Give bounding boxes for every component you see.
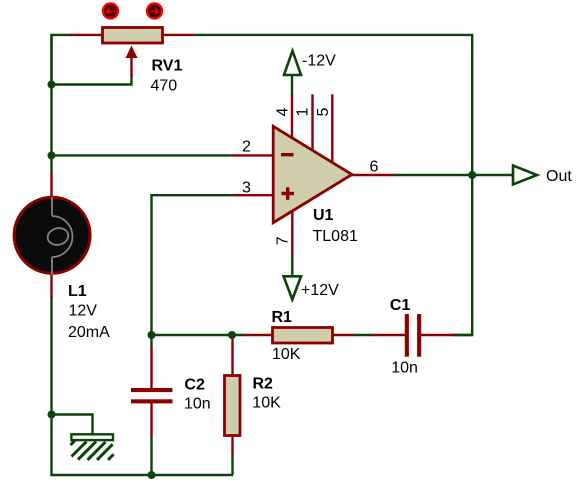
- wire R2 bottom green stub: [231, 455, 233, 475]
- wire out junction to out arrow: [454, 334, 472, 336]
- wire minus12 stem: [291, 75, 293, 96]
- wire mid horizontal between C2 and R2 nodes: [152, 334, 246, 336]
- svg-text:10K: 10K: [252, 395, 281, 412]
- potentiometer RV1 wiper arrow: [130, 55, 132, 76]
- svg-text:10K: 10K: [272, 346, 301, 363]
- potentiometer RV1 leads: [71, 34, 195, 36]
- resistor R1 body: [273, 328, 333, 344]
- junction node pin2/left rail: [48, 151, 56, 159]
- svg-text:-12V: -12V: [302, 53, 336, 70]
- op-amp U1 pin 4 lead: [291, 95, 293, 138]
- svg-text:12V: 12V: [69, 303, 98, 320]
- ground symbol: [71, 434, 114, 460]
- svg-text:7: 7: [275, 236, 292, 245]
- junction node C2 top: [148, 331, 156, 339]
- svg-text:4: 4: [275, 108, 292, 117]
- resistor R2 top lead: [231, 337, 233, 375]
- op-amp U1 pin 1 lead: [311, 94, 313, 150]
- junction node C2 bottom: [148, 471, 156, 479]
- resistor R2 body: [225, 376, 241, 436]
- wire plus12 stem: [291, 255, 293, 276]
- junction node output: [468, 171, 476, 179]
- svg-text:L1: L1: [68, 283, 87, 300]
- op-amp U1 pin 5 lead: [331, 94, 333, 163]
- capacitor C1 left lead: [372, 334, 405, 336]
- op-amp U1 triangle body: [273, 126, 352, 222]
- pot actuator button right (red dot with right arrow): [147, 3, 162, 18]
- svg-text:C1: C1: [390, 297, 411, 314]
- capacitor C1 right lead: [421, 334, 455, 336]
- svg-text:2: 2: [242, 139, 251, 156]
- capacitor C2 bottom lead: [150, 402, 152, 437]
- potentiometer RV1 body: [103, 28, 163, 44]
- svg-text:TL081: TL081: [313, 228, 358, 245]
- capacitor C2 top lead: [150, 348, 152, 388]
- svg-text:10n: 10n: [184, 396, 211, 413]
- wire right vertical below out junction: [454, 175, 472, 335]
- junction node ground branch: [48, 411, 56, 419]
- op-amp U1 pin 3 lead: [232, 194, 273, 196]
- wire R1 to C1 gap: [353, 334, 373, 336]
- resistor R1 leads: [244, 334, 354, 336]
- svg-text:20mA: 20mA: [68, 324, 110, 341]
- svg-text:RV1: RV1: [152, 58, 183, 75]
- wire pin6 to out: [393, 174, 514, 176]
- svg-text:U1: U1: [313, 207, 334, 224]
- wire top from left corner to pot: [52, 35, 73, 85]
- junction node wiper/left rail: [48, 81, 56, 89]
- lamp L1 top lead: [50, 172, 52, 198]
- wire pin2: [52, 154, 234, 156]
- svg-text:Out: Out: [546, 168, 572, 185]
- output terminal arrow: [513, 166, 537, 185]
- lamp L1 body: [14, 197, 90, 273]
- op-amp minus symbol: [281, 153, 294, 156]
- svg-text:+12V: +12V: [301, 282, 339, 299]
- wire top from pot to right corner: [194, 35, 473, 175]
- svg-text:6: 6: [370, 159, 379, 176]
- wire C2 bottom green stub: [150, 436, 152, 475]
- capacitor C1 plates: [405, 314, 409, 357]
- pot actuator button left (red dot with left arrow): [103, 3, 118, 18]
- wire left vertical lower: [52, 296, 234, 475]
- wire C2 top green stub: [150, 335, 152, 349]
- op-amp U1 pin 6 lead: [352, 174, 393, 176]
- svg-text:10n: 10n: [391, 360, 418, 377]
- wire pin3 to left then down: [152, 195, 233, 335]
- lamp L1 bottom lead: [50, 274, 52, 297]
- svg-text:R2: R2: [253, 376, 274, 393]
- svg-text:5: 5: [315, 108, 332, 117]
- wire ground branch: [52, 415, 93, 435]
- capacitor C2 plates: [131, 388, 173, 392]
- op-amp U1 pin 7 lead: [291, 211, 293, 255]
- op-amp plus symbol: [282, 192, 295, 195]
- svg-text:C2: C2: [184, 377, 205, 394]
- svg-text:470: 470: [151, 78, 178, 95]
- wire left vertical upper: [50, 35, 52, 173]
- wire wiper to left rail: [52, 74, 132, 85]
- svg-text:3: 3: [242, 180, 251, 197]
- op-amp U1 pin 2 lead: [232, 154, 273, 156]
- resistor R2 bottom lead: [231, 436, 233, 456]
- svg-text:R1: R1: [272, 309, 293, 326]
- power arrow +12V: [284, 276, 301, 299]
- power arrow -12V: [284, 51, 301, 75]
- svg-text:1: 1: [295, 108, 312, 117]
- lamp L1 filament: [46, 197, 73, 275]
- junction node R2 top: [228, 331, 236, 339]
